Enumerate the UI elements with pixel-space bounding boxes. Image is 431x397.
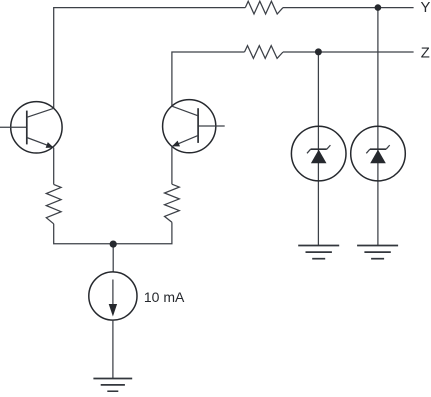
svg-text:Z: Z — [421, 45, 430, 61]
svg-text:Y: Y — [421, 0, 431, 16]
svg-text:10 mA: 10 mA — [144, 289, 185, 305]
